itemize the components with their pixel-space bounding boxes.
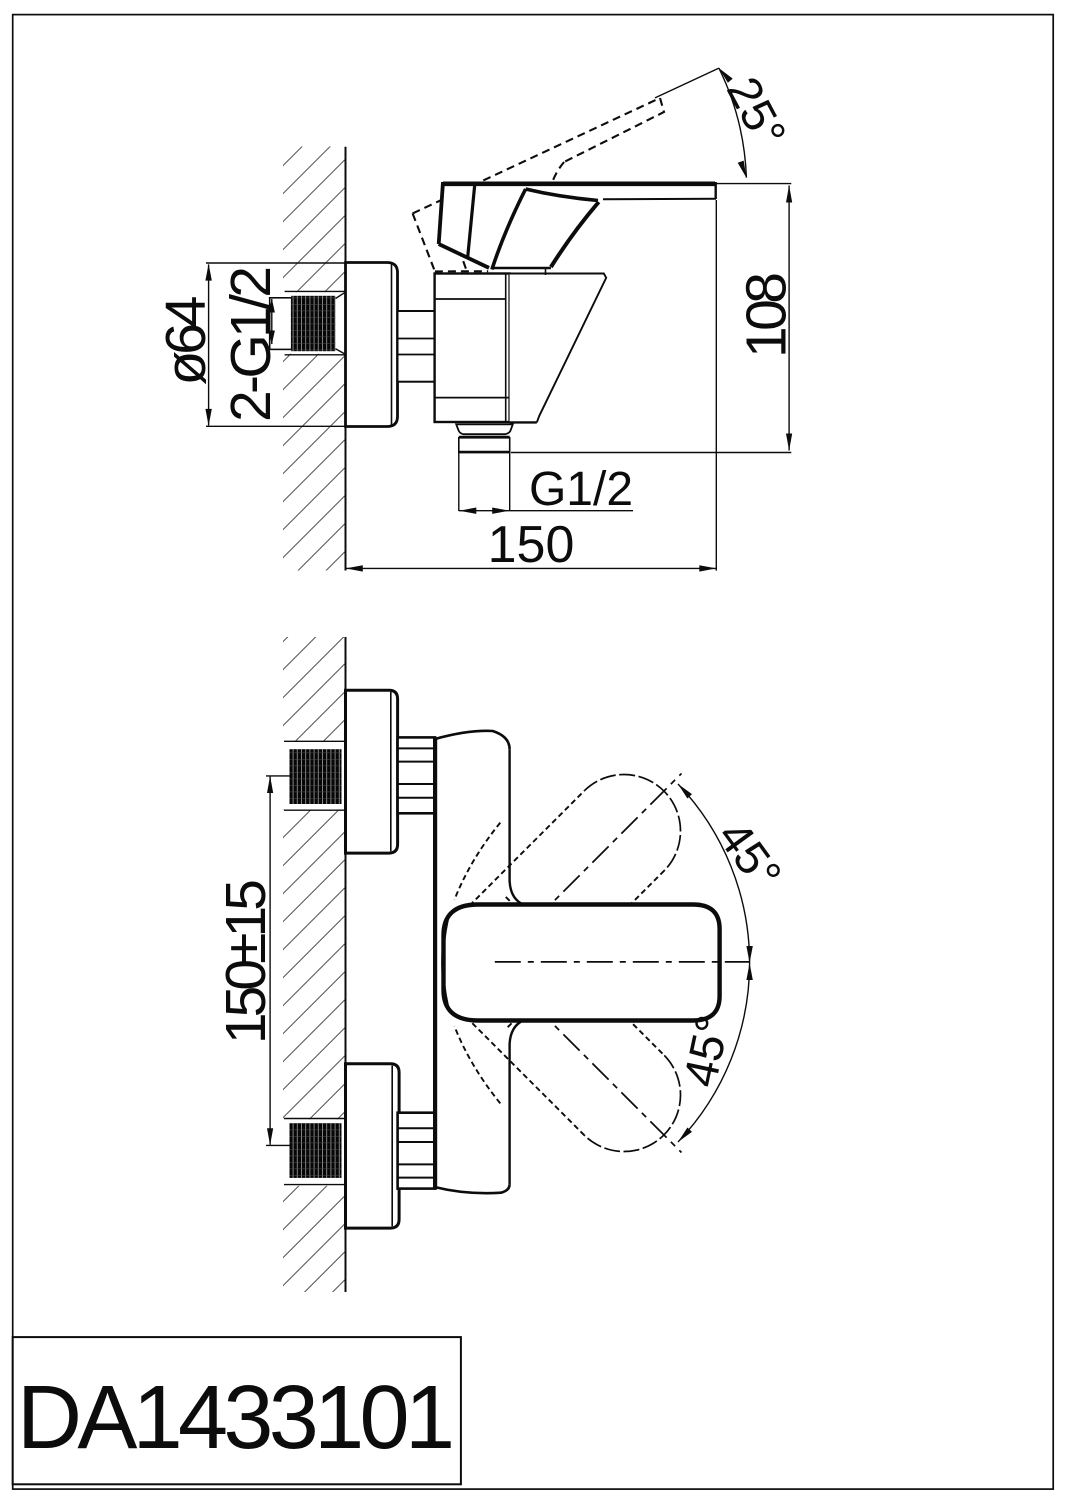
- wall line (bottom view): [345, 637, 347, 1292]
- solid lever handle (top view): [439, 182, 716, 275]
- svg-text:2-G1/2: 2-G1/2: [219, 266, 283, 422]
- lower inlet thread (bottom view): [290, 1123, 342, 1178]
- connector adapter (top view): [398, 311, 435, 382]
- outlet pipe (top view): [459, 437, 510, 511]
- wall hatching (top view): [283, 147, 346, 571]
- ghost handle up 45 deg (dashed): [444, 774, 682, 1030]
- svg-text:150: 150: [488, 516, 575, 574]
- ghost raised lever (dashed, rotated 25 deg): [413, 98, 664, 271]
- svg-text:DA1433101: DA1433101: [17, 1368, 455, 1468]
- wall hole pocket (top view): [269, 291, 346, 354]
- 108 dimension: [511, 186, 792, 453]
- lower flange escutcheon (bottom view): [346, 1064, 400, 1228]
- lower connector (bottom view): [398, 1113, 436, 1189]
- svg-text:150±15: 150±15: [214, 879, 278, 1044]
- upper flange escutcheon (bottom view): [346, 690, 398, 853]
- wall flange escutcheon (top view): [346, 263, 398, 427]
- 150 dimension: [346, 200, 717, 572]
- 45 deg dimension arcs: [678, 784, 753, 1142]
- ghost handle down 45 deg (dashed): [444, 897, 682, 1153]
- svg-text:G1/2: G1/2: [529, 463, 633, 516]
- phi64 dimension: [205, 263, 345, 426]
- 2-G1/2 leader double arrow: [269, 299, 275, 345]
- inlet nipple thread G1/2 (top view): [270, 292, 346, 355]
- solid handle (bottom view): [443, 905, 720, 1021]
- faucet body tube (bottom view): [435, 731, 523, 1193]
- upper wall pocket (bottom view): [283, 741, 346, 810]
- spout (top view): [510, 274, 607, 423]
- upper inlet thread (bottom view): [290, 749, 342, 804]
- wall line (top view): [345, 147, 347, 571]
- part number box: [13, 1337, 461, 1484]
- 25 deg dimension: [655, 68, 791, 184]
- svg-text:ø64: ø64: [154, 296, 218, 386]
- upper connector (bottom view): [398, 737, 436, 813]
- lower wall pocket (bottom view): [283, 1119, 346, 1186]
- wall hatching (bottom view): [283, 637, 346, 1292]
- outlet collar (top view): [456, 424, 513, 434]
- faucet body block (top view): [435, 274, 510, 423]
- svg-text:108: 108: [735, 272, 799, 358]
- centerline dash-dot: [495, 961, 750, 963]
- G1/2 dimension: [459, 508, 633, 514]
- 150+-15 dimension: [266, 776, 290, 1146]
